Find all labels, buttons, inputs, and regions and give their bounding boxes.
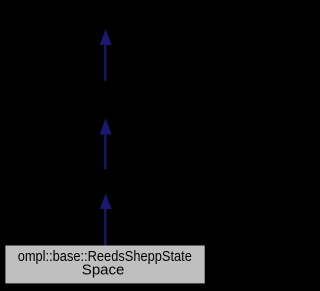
inheritance arrow A2: ompl::base::SE2StateSpace -> ompl::base::CompoundStateSpace [100, 118, 112, 169]
svg-text:Space: Space [82, 262, 125, 279]
class box ompl::base::ReedsSheppStateSpace (current node, grey75 fill) [5, 246, 204, 284]
inheritance arrow A1: ompl::base::CompoundStateSpace -> ompl::base::StateSpace [100, 29, 112, 81]
inheritance arrow A3: ompl::base::ReedsSheppStateSpace -> ompl::base::SE2StateSpace [100, 194, 112, 246]
